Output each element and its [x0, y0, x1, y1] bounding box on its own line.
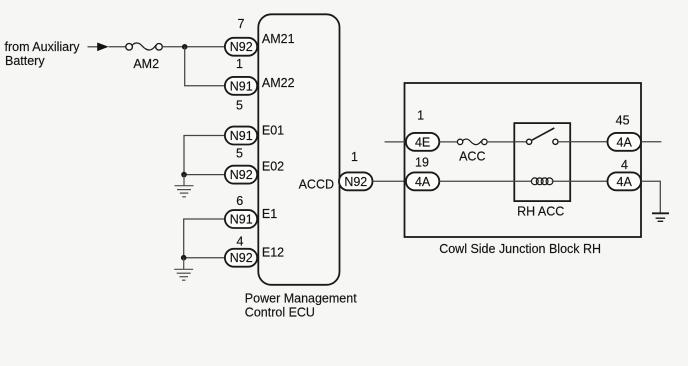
fuse ACC — [457, 139, 487, 145]
wire junction down to AM22 — [185, 47, 225, 86]
wire relay contact right — [558, 141, 570, 143]
svg-text:ACCD: ACCD — [299, 177, 334, 191]
svg-text:6: 6 — [236, 194, 243, 208]
svg-text:N92: N92 — [230, 168, 253, 182]
wire 4E to fuse ACC — [439, 141, 457, 143]
svg-text:4A: 4A — [415, 175, 431, 189]
wire E12 to ground stem — [184, 257, 225, 259]
svg-text:N91: N91 — [230, 213, 253, 227]
relay switch blade — [532, 128, 555, 140]
wire from label to arrow — [88, 46, 99, 48]
wire relay coil to 4A right — [552, 180, 608, 182]
wire stub left of 4E — [385, 141, 406, 143]
wire fuse to pin AM21 — [162, 46, 225, 48]
svg-text:E1: E1 — [262, 207, 277, 221]
svg-text:Cowl Side Junction Block RH: Cowl Side Junction Block RH — [439, 242, 601, 256]
wire E01 to ground stem — [184, 136, 225, 175]
connector 4A left — [406, 172, 439, 190]
wire arrow to fuse AM2 — [109, 46, 126, 48]
ground G2 — [174, 258, 193, 281]
wire E1 to ground stem — [184, 219, 225, 258]
wire 4A to relay coil — [439, 180, 531, 182]
svg-text:19: 19 — [415, 156, 429, 170]
wire stub right of 4A row1 — [641, 141, 661, 143]
svg-text:7: 7 — [238, 17, 245, 31]
svg-text:ACC: ACC — [459, 149, 485, 163]
wire ACCD to junction block 4A — [373, 180, 406, 182]
svg-text:4A: 4A — [617, 135, 633, 149]
svg-text:1: 1 — [351, 150, 358, 164]
svg-text:5: 5 — [236, 99, 243, 113]
arrow feed direction — [97, 43, 108, 52]
junction dot ground 2 — [181, 255, 187, 261]
svg-text:AM22: AM22 — [262, 76, 295, 90]
svg-text:N92: N92 — [230, 251, 253, 265]
wire 4A row2 to ground — [641, 181, 660, 212]
svg-text:5: 5 — [236, 147, 243, 161]
connector N92 pin ACCD — [339, 172, 373, 190]
svg-text:E12: E12 — [262, 245, 284, 259]
junction dot A — [182, 44, 188, 50]
connector N92 pin E02 — [225, 166, 257, 184]
svg-text:4: 4 — [621, 158, 628, 172]
svg-text:AM21: AM21 — [262, 32, 295, 46]
svg-text:1: 1 — [236, 57, 243, 71]
svg-text:RH ACC: RH ACC — [517, 204, 564, 218]
wire E02 to ground stem — [184, 174, 225, 176]
svg-text:45: 45 — [616, 114, 630, 128]
svg-text:E02: E02 — [262, 160, 284, 174]
connector N92 pin AM21 — [225, 38, 257, 56]
junction dot ground 1 — [181, 172, 187, 178]
connector 4E — [406, 133, 439, 151]
svg-text:4E: 4E — [415, 135, 430, 149]
svg-text:N92: N92 — [230, 40, 253, 54]
connector 4A right row2 — [608, 172, 642, 190]
junction block Cowl Side Junction Block RH — [405, 83, 642, 237]
svg-text:AM2: AM2 — [133, 57, 159, 71]
svg-text:N91: N91 — [230, 129, 253, 143]
wire relay contact left — [514, 141, 526, 143]
op ECU body Power Management Control ECU — [258, 14, 339, 285]
svg-text:from Auxiliary: from Auxiliary — [5, 40, 81, 54]
connector N91 pin AM22 — [225, 77, 257, 95]
ground G1 — [175, 175, 194, 197]
connector N91 pin E1 — [225, 210, 257, 228]
connector 4A right row1 — [608, 133, 642, 151]
svg-text:1: 1 — [417, 108, 424, 122]
svg-text:N92: N92 — [344, 175, 367, 189]
relay RH ACC box — [514, 123, 570, 201]
relay switch contact right — [553, 139, 558, 144]
svg-text:Battery: Battery — [5, 54, 45, 68]
svg-text:4A: 4A — [617, 175, 633, 189]
svg-text:Control ECU: Control ECU — [245, 306, 315, 320]
wire fuse ACC to relay — [487, 141, 514, 143]
relay switch contact left — [527, 139, 532, 144]
svg-text:4: 4 — [237, 234, 244, 248]
svg-text:Power Management: Power Management — [245, 291, 357, 305]
svg-text:N91: N91 — [230, 79, 253, 93]
relay coil — [531, 178, 553, 185]
ground G3 — [652, 213, 669, 221]
svg-text:E01: E01 — [262, 124, 284, 138]
connector N91 pin E01 — [225, 127, 257, 145]
wire relay to 4A row1 — [570, 141, 607, 143]
connector N92 pin E12 — [225, 249, 257, 267]
fuse AM2 — [126, 43, 163, 50]
